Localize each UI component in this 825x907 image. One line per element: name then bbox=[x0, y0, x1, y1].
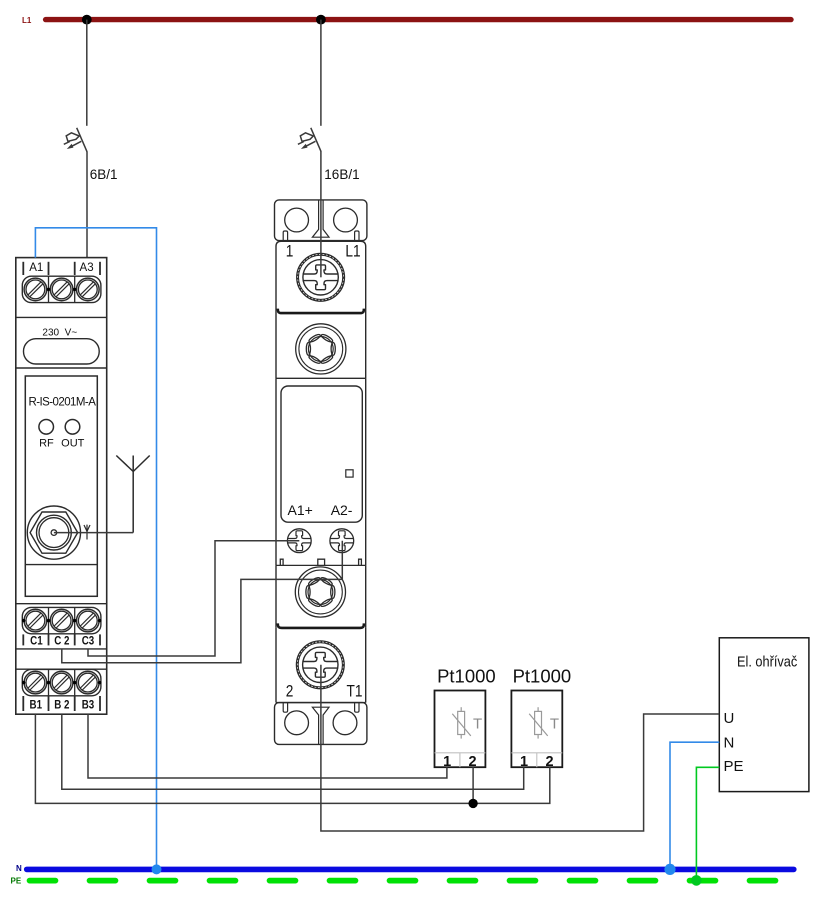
antenna symbol bbox=[116, 456, 149, 533]
junction: N rail / heater N wire bbox=[664, 864, 675, 875]
temperature sensor Pt1000 #2: box bbox=[511, 691, 562, 768]
svg-text:A2-: A2- bbox=[331, 502, 353, 518]
screw terminal B1 bbox=[24, 671, 47, 694]
wire: L1 rail down to breaker 6B/1 bbox=[86, 20, 88, 126]
mounting torx screw upper bbox=[296, 324, 346, 374]
svg-text:L1: L1 bbox=[345, 242, 360, 260]
svg-text:N: N bbox=[16, 864, 22, 873]
SSR top plate hole right bbox=[334, 208, 358, 232]
screw terminal A2 (middle, unlabeled) bbox=[50, 278, 73, 301]
terminal strip #1 bbox=[435, 753, 486, 767]
wire: B2 to sensor 2 pin 1 bbox=[62, 714, 524, 789]
marking window (rounded) bbox=[24, 339, 100, 364]
svg-text:PE: PE bbox=[724, 758, 744, 775]
mounting torx screw lower bbox=[295, 567, 345, 617]
module section divider above C-terminals bbox=[16, 603, 107, 605]
svg-text:T: T bbox=[473, 715, 482, 732]
terminal cell dividers row C bbox=[49, 607, 75, 633]
SSR section 2 sides bbox=[276, 313, 366, 378]
SSR top plate nub left bbox=[283, 231, 287, 241]
svg-text:U: U bbox=[724, 710, 735, 727]
svg-text:OUT: OUT bbox=[61, 437, 85, 449]
junction: N rail / module A1 wire bbox=[152, 864, 162, 874]
svg-text:Pt1000: Pt1000 bbox=[437, 666, 496, 687]
relay module R-IS-0201M-A: outer body bbox=[16, 258, 107, 715]
svg-text:1: 1 bbox=[286, 242, 294, 260]
junction: sensor common node bbox=[468, 799, 477, 808]
tangent dots row C bbox=[22, 619, 101, 622]
SSR top mounting plate bbox=[275, 200, 367, 241]
wire (blue): N rail to module terminal A1 bbox=[35, 228, 156, 867]
label window (lower) bbox=[25, 564, 97, 566]
circuit breaker 16B/1 (MCB symbol) bbox=[298, 128, 321, 152]
SSR bottom mounting plate bbox=[275, 703, 367, 745]
circuit breaker 6B/1 (MCB symbol) bbox=[64, 128, 87, 152]
svg-text:RF: RF bbox=[39, 437, 54, 449]
SSR front label area (rounded) bbox=[281, 386, 362, 522]
svg-text:A3: A3 bbox=[80, 262, 94, 274]
wire: B3 to sensor 1 pin 1 bbox=[88, 714, 447, 778]
LED indicator square bbox=[346, 470, 353, 477]
screw terminal C1 bbox=[24, 609, 47, 632]
module section divider below A-terminals bbox=[16, 316, 107, 318]
svg-text:A1+: A1+ bbox=[288, 502, 313, 518]
svg-text:L1: L1 bbox=[22, 16, 32, 25]
svg-text:6B/1: 6B/1 bbox=[90, 167, 118, 182]
screw terminal 1/L1 (philips) bbox=[297, 253, 345, 301]
tangent dots row B bbox=[22, 681, 101, 684]
front panel bbox=[25, 376, 97, 596]
SSR section 1/L1 body bbox=[276, 241, 366, 313]
control screw A1+ bbox=[287, 529, 311, 553]
SSR thick border under section 4 bbox=[278, 623, 364, 628]
terminal block row A (pill) bbox=[22, 276, 101, 302]
svg-text:R-IS-0201M-A: R-IS-0201M-A bbox=[28, 396, 96, 408]
terminal ticks row B bbox=[23, 696, 100, 711]
screw terminal B3 bbox=[77, 671, 100, 694]
terminal cell dividers row B bbox=[49, 669, 75, 695]
svg-text:T1: T1 bbox=[347, 683, 363, 701]
SSR bottom plate nub right bbox=[355, 703, 359, 713]
svg-text:C1: C1 bbox=[30, 635, 43, 648]
screw terminal 2/T1 (philips) bbox=[296, 641, 344, 689]
screw terminal A1 bbox=[24, 278, 47, 301]
heater El. ohrivac: box bbox=[719, 638, 809, 792]
SSR top plate hole left bbox=[285, 208, 309, 232]
wire: B1 to sensor pins 2 (common) bbox=[35, 714, 549, 803]
net N: neutral rail bbox=[27, 867, 794, 873]
screw terminal A3 bbox=[77, 278, 100, 301]
svg-text:A1: A1 bbox=[29, 262, 43, 274]
svg-text:B3: B3 bbox=[82, 699, 95, 712]
svg-text:C3: C3 bbox=[82, 635, 95, 648]
module section divider below 230V window bbox=[16, 367, 107, 369]
RF output marker (small antenna glyph) bbox=[84, 525, 90, 540]
wire: sensor 1 pin 2 down to common bbox=[472, 767, 474, 803]
SSR top plate nub right bbox=[355, 231, 359, 241]
svg-text:PE: PE bbox=[11, 876, 22, 885]
svg-text:C 2: C 2 bbox=[54, 635, 69, 648]
SSR top plate wire funnel bbox=[312, 200, 329, 237]
junction on L1 rail feeding breaker 6B/1 bbox=[82, 15, 92, 25]
svg-text:230 V~: 230 V~ bbox=[42, 327, 77, 338]
module section divider above B-terminals bbox=[16, 668, 107, 670]
SSR section 2/T1 body bbox=[276, 628, 366, 703]
SSR bottom plate nub left bbox=[283, 703, 287, 713]
net L1: phase rail bbox=[46, 17, 791, 22]
terminal strip #2 bbox=[511, 753, 562, 767]
thermistor symbol #2 bbox=[529, 707, 548, 738]
svg-text:B 2: B 2 bbox=[54, 699, 69, 712]
SSR thick border under section 1 bbox=[278, 309, 364, 314]
net PE: protective earth rail bbox=[30, 878, 791, 884]
SSR clip border with tabs bbox=[276, 559, 366, 565]
terminal cell dividers row A bbox=[49, 276, 75, 302]
temperature sensor Pt1000 #1: box bbox=[435, 691, 486, 768]
terminal block row C (pill) bbox=[22, 607, 101, 633]
screw terminal C2 bbox=[50, 609, 73, 632]
wire (green): PE rail to heater PE bbox=[696, 767, 719, 880]
terminal block row B (pill) bbox=[22, 669, 101, 695]
junction: PE rail / heater PE wire bbox=[691, 875, 702, 886]
svg-text:N: N bbox=[724, 735, 735, 752]
wire: SMA connector to antenna bbox=[54, 532, 133, 534]
LED OUT bbox=[65, 420, 80, 435]
wire: C2 to SSR control A2- bbox=[62, 541, 343, 663]
screw terminal C3 bbox=[77, 609, 100, 632]
SSR section 3 sides bbox=[276, 378, 366, 565]
tangent dots row A bbox=[47, 288, 77, 291]
SSR bottom plate hole left bbox=[285, 711, 309, 735]
junction on L1 rail feeding breaker 16B/1 bbox=[316, 15, 326, 25]
wire: C3 to SSR control A1+ bbox=[88, 541, 299, 656]
LED RF bbox=[39, 420, 54, 435]
wire: SSR T1 to heater U bbox=[321, 665, 719, 831]
wire: breaker 6B/1 to module terminal A3 bbox=[86, 152, 88, 258]
wire: L1 rail down to breaker 16B/1 bbox=[320, 20, 322, 126]
svg-text:B1: B1 bbox=[30, 699, 43, 712]
control screw A2- bbox=[330, 529, 354, 553]
screw terminal B2 bbox=[50, 671, 73, 694]
thermistor symbol #1 bbox=[452, 707, 471, 738]
SSR section 4 sides bbox=[276, 565, 366, 627]
wire (blue): N rail to heater N bbox=[670, 742, 719, 869]
svg-text:T: T bbox=[550, 715, 559, 732]
module section divider below C-terminals bbox=[16, 648, 107, 650]
svg-text:16B/1: 16B/1 bbox=[324, 167, 359, 182]
svg-text:El. ohřívač: El. ohřívač bbox=[737, 652, 797, 669]
wire: breaker 16B/1 to SSR screw 1/L1 bbox=[320, 152, 322, 278]
terminal ticks row C bbox=[23, 634, 100, 645]
svg-text:2: 2 bbox=[286, 683, 294, 701]
terminal ticks row A bbox=[23, 262, 100, 275]
SSR bottom plate hole right bbox=[333, 711, 357, 735]
svg-text:Pt1000: Pt1000 bbox=[513, 666, 572, 687]
SMA antenna connector bbox=[27, 506, 80, 559]
SSR bottom plate wire funnel bbox=[312, 707, 329, 744]
